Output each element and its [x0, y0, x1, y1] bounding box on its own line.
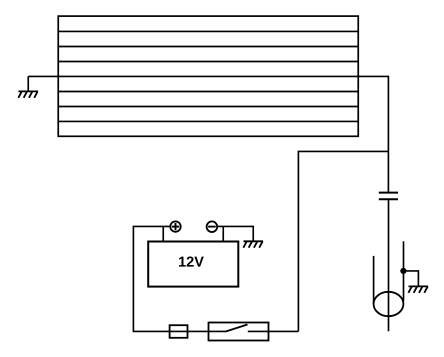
battery B1 case	[148, 242, 238, 287]
wire: negative terminal to chassis ground	[218, 226, 253, 241]
switch left contact wire	[209, 330, 226, 332]
switch lever (open)	[225, 325, 247, 332]
capacitor C1 bottom plate	[379, 198, 398, 200]
ground symbol (spark plug, chassis)	[408, 286, 428, 292]
battery positive terminal circle	[170, 221, 180, 231]
wire: capacitor to spark plug center electrode	[388, 199, 390, 331]
wire: ground stub (left)	[27, 76, 29, 91]
wire: spark plug shell to ground	[403, 271, 418, 287]
wire: branch from capacitor node down to switch (right loop)	[298, 151, 388, 331]
spark plug shell left line	[373, 256, 375, 304]
switch right contact wire	[248, 330, 269, 332]
wire: left ground through grid center line to capacitor drop	[28, 76, 388, 192]
wire: switch to right loop vertical	[269, 330, 299, 332]
wire: positive feed loop (left side down to fuse)	[133, 226, 169, 331]
ground symbol (left, chassis)	[18, 91, 38, 97]
battery negative terminal circle	[207, 221, 218, 232]
fuse F1 body	[170, 325, 188, 338]
switch S1 body	[209, 323, 269, 341]
capacitor C1 top plate	[379, 192, 398, 194]
battery label 12V	[179, 256, 204, 266]
wire: through fuse to switch	[170, 330, 209, 332]
wire: positive terminal stub to battery top	[162, 226, 164, 241]
ground symbol (battery, chassis)	[243, 241, 263, 247]
spark plug shell right line	[403, 241, 405, 301]
heated rear window grid element	[58, 16, 358, 136]
wire: negative side stub to battery top	[222, 226, 224, 241]
junction dot on spark plug shell	[400, 268, 406, 274]
spark plug body ellipse	[374, 292, 404, 316]
